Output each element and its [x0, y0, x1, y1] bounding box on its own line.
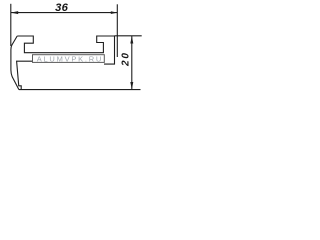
extension line right (dim 36)	[116, 4, 118, 57]
svg-text:36: 36	[55, 2, 69, 14]
profile outer left edge	[11, 36, 19, 90]
watermark box	[33, 55, 105, 63]
arrowhead up of dim 20	[130, 36, 133, 44]
dimension line 36	[11, 12, 118, 14]
background	[0, 0, 144, 116]
profile inner line left segment	[17, 61, 33, 89]
arrowhead left of dim 36	[11, 11, 18, 14]
svg-text:20: 20	[120, 51, 131, 67]
bottom edge / extension line bottom (dim 20)	[19, 89, 141, 91]
dimension line 20	[131, 36, 133, 90]
extension line left (dim 36)	[10, 4, 12, 46]
extension line top right (dim 20)	[115, 35, 142, 37]
profile left tab with hook notch	[17, 36, 114, 64]
arrowhead down of dim 20	[130, 82, 133, 89]
svg-text:ALUMVPK.RU: ALUMVPK.RU	[37, 54, 103, 63]
arrowhead right of dim 36	[111, 11, 118, 14]
